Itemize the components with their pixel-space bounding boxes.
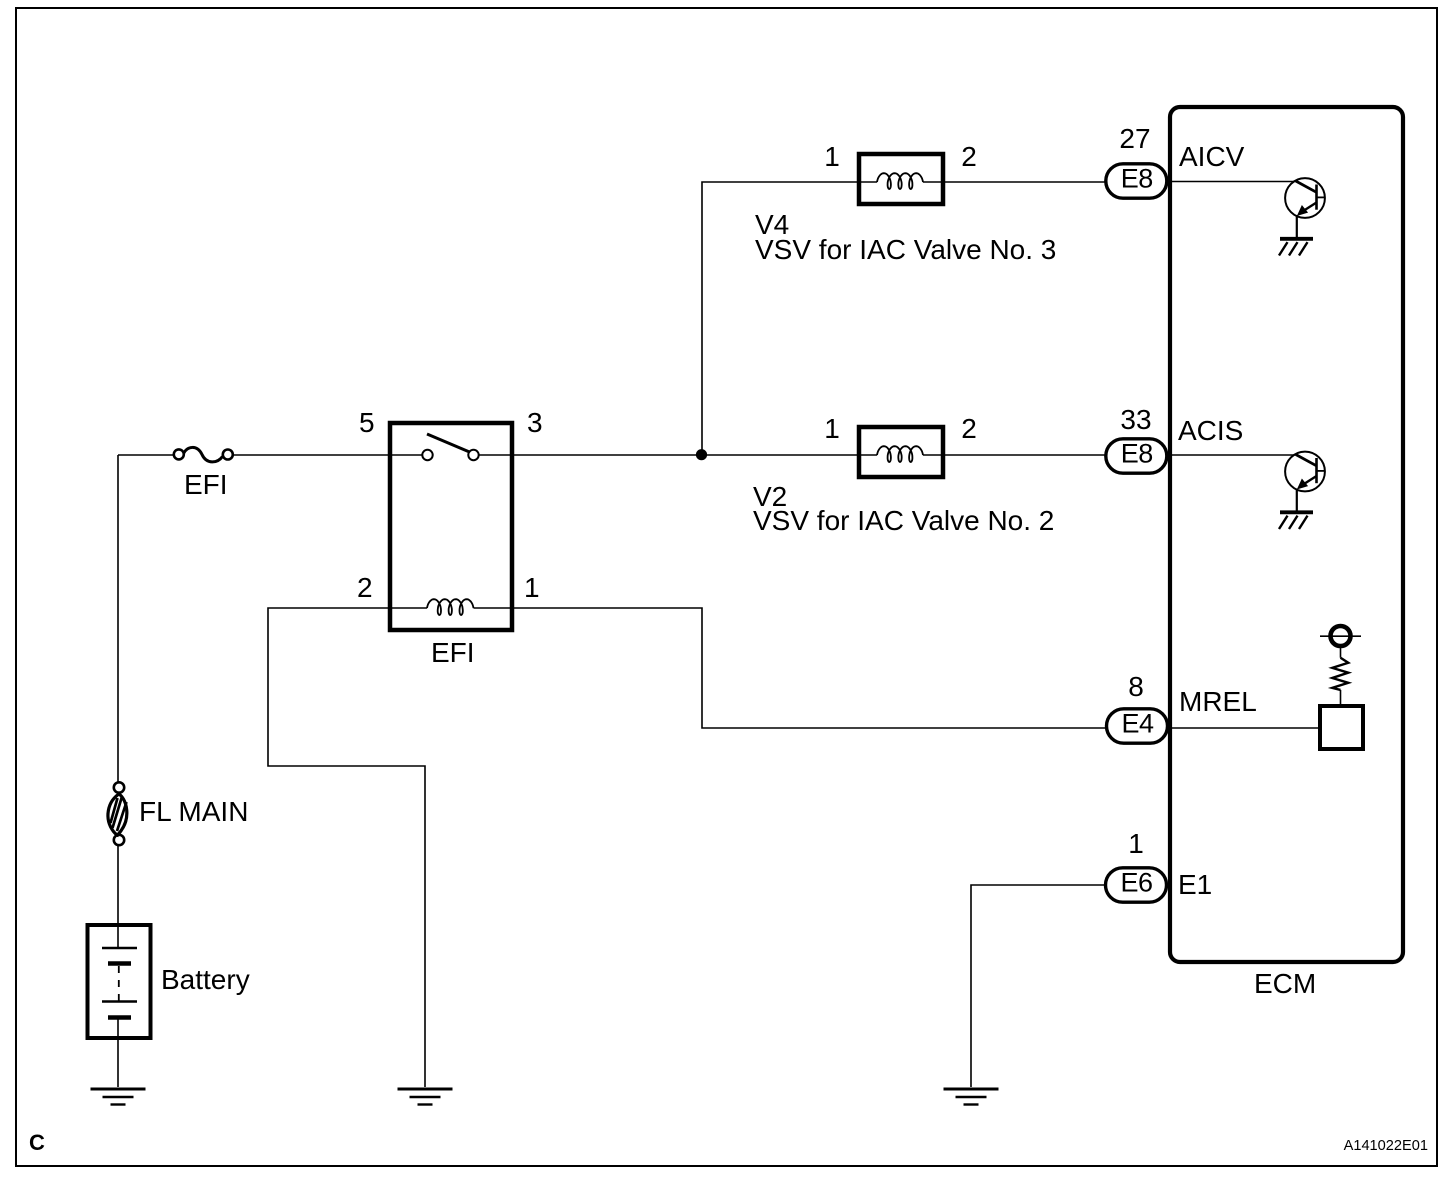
B+ tick line (1320, 635, 1361, 637)
wire relay 3 to junction to VSV V2 (514, 454, 859, 456)
wire E8 to transistor Q1 (1167, 181, 1296, 183)
svg-text:2: 2 (961, 413, 977, 444)
ground relay coil (398, 1089, 453, 1105)
wire relay pin2 to ground (268, 608, 425, 1087)
svg-text:EFI: EFI (431, 637, 475, 668)
fusible link FL MAIN (108, 782, 127, 845)
svg-text:E8: E8 (1121, 438, 1153, 468)
VSV V4 box (859, 154, 943, 204)
transistor Q2 (1285, 452, 1325, 512)
node junction (696, 449, 707, 460)
svg-text:ECM: ECM (1254, 968, 1316, 999)
svg-text:E8: E8 (1121, 163, 1153, 193)
svg-text:8: 8 (1128, 671, 1144, 702)
battery (88, 845, 151, 1087)
wire E6 to ground (971, 885, 1104, 1087)
svg-text:1: 1 (824, 413, 840, 444)
svg-text:27: 27 (1119, 123, 1150, 154)
svg-text:E1: E1 (1178, 869, 1212, 900)
relay EFI box (390, 423, 512, 630)
wire V4 to E8 (943, 181, 1107, 183)
ground Q1 hatched (1279, 239, 1313, 256)
svg-text:33: 33 (1120, 404, 1151, 435)
connector pin E4 oval (1107, 708, 1168, 743)
wire V2 to E8 (943, 454, 1107, 456)
svg-text:E6: E6 (1120, 867, 1152, 897)
coil V4 (877, 173, 923, 189)
B+ terminal circle (1331, 626, 1351, 646)
relay switch contact right (468, 450, 478, 460)
ground battery (91, 1089, 146, 1105)
wire V4 internal stubs (859, 181, 943, 183)
ground Q2 hatched (1279, 512, 1313, 529)
wire fuse to relay (233, 454, 388, 456)
connector pin E6 oval (1106, 867, 1167, 902)
wire relay internal switch row (388, 454, 514, 456)
wire battery positive feed vertical (117, 455, 119, 783)
wire V2 internal stubs (859, 454, 943, 456)
svg-text:MREL: MREL (1179, 686, 1257, 717)
transistor Q1 (1285, 178, 1325, 238)
svg-text:FL MAIN: FL MAIN (139, 796, 248, 827)
wire junction up to V4 row (702, 182, 859, 455)
driver box (1320, 706, 1363, 749)
relay switch contact left (422, 450, 432, 460)
connector pin E8 AICV oval (1106, 163, 1167, 198)
wire E4 to driver box (1168, 727, 1319, 729)
svg-text:A141022E01: A141022E01 (1344, 1138, 1428, 1154)
svg-text:ACIS: ACIS (1178, 415, 1243, 446)
resistor R (1332, 648, 1348, 706)
fuse EFI (174, 447, 233, 461)
relay switch blade (427, 434, 470, 452)
svg-text:VSV for IAC Valve No. 2: VSV for IAC Valve No. 2 (753, 505, 1054, 536)
coil V2 (877, 446, 923, 462)
wire relay pin1 to E4 (514, 608, 1106, 728)
VSV V2 box (859, 427, 943, 477)
ground E1 (944, 1089, 999, 1105)
svg-text:2: 2 (961, 141, 977, 172)
svg-text:VSV for IAC Valve No. 3: VSV for IAC Valve No. 3 (755, 234, 1056, 265)
svg-text:1: 1 (824, 141, 840, 172)
svg-text:2: 2 (357, 572, 373, 603)
svg-text:1: 1 (1128, 828, 1144, 859)
connector pin E8 ACIS oval (1106, 438, 1167, 473)
svg-text:E4: E4 (1121, 708, 1154, 738)
svg-text:1: 1 (524, 572, 540, 603)
wire battery top to EFI fuse (118, 454, 173, 456)
ECM box (1170, 107, 1403, 962)
relay coil winding (427, 599, 474, 615)
wire E8 to transistor Q2 (1167, 454, 1296, 456)
svg-text:C: C (29, 1130, 45, 1155)
svg-text:5: 5 (359, 407, 375, 438)
svg-text:3: 3 (527, 407, 543, 438)
svg-text:EFI: EFI (184, 469, 228, 500)
svg-text:AICV: AICV (1179, 141, 1245, 172)
svg-text:Battery: Battery (161, 964, 250, 995)
wire relay coil stubs (388, 607, 514, 609)
